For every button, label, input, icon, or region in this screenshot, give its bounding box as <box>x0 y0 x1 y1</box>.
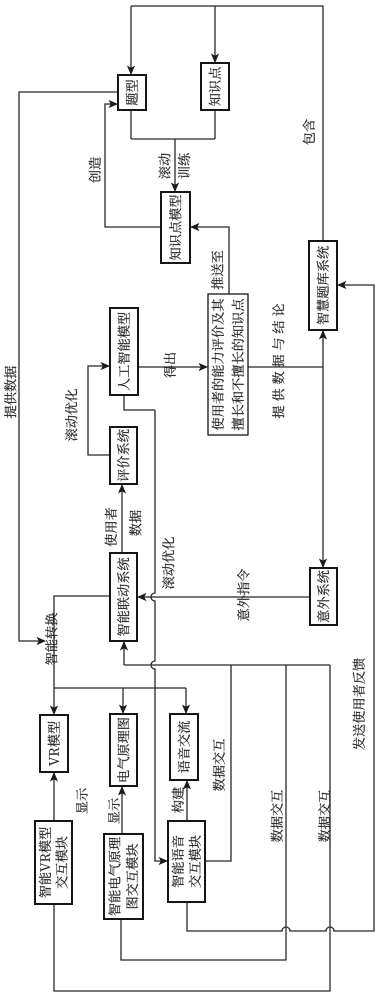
label 数据交互 2 <box>271 790 283 842</box>
box 使用者的能力评价及其擅长和不擅长的知识点 <box>208 294 248 435</box>
box 意外系统 <box>310 568 337 625</box>
box 人工智能模型 <box>110 308 138 395</box>
box 智慧题库系统 <box>309 241 337 330</box>
wire 构建 <box>186 781 188 821</box>
arrow into 知识点 top <box>211 54 219 64</box>
label 使用者数据 line2 <box>129 510 141 535</box>
arrow 显示 into VR模型 bottom <box>50 772 58 782</box>
wire 显示 VR <box>53 773 55 821</box>
wire 提供数据 long left <box>19 92 118 641</box>
arrow into 知识点模型 top <box>171 183 179 193</box>
wire 提供数据与结论 horizontal <box>248 366 323 368</box>
label 数据交互 1 <box>213 739 225 791</box>
label 显示 VR <box>76 788 88 813</box>
wire drop to VR模块 bottom <box>54 665 330 991</box>
arrow 滚动优化 into 人工智能模型 left <box>101 362 111 370</box>
box 语音交流 <box>170 714 198 780</box>
arrow into 意外系统 top <box>319 559 327 569</box>
arrow 构建 into 语音交流 bottom <box>183 780 191 790</box>
wire 显示 电气 <box>121 787 123 834</box>
arrow 推送至 into 知识点模型 right <box>190 223 200 231</box>
wire busA up into 联动系统 <box>123 642 125 665</box>
arrow into 题型 top <box>127 66 135 76</box>
label 创造 <box>89 157 101 183</box>
label 数据交互 3 <box>318 790 330 842</box>
wire bus A <box>124 664 330 666</box>
arrow into VR模型 top <box>50 706 58 716</box>
label 提供数据 <box>4 366 16 418</box>
wire AI模型 bottom jog <box>124 395 155 410</box>
wire down into 意外系统 top <box>322 367 324 569</box>
label 意外指令 <box>237 569 249 621</box>
wire merge <box>131 138 215 140</box>
label 滚动优化 2 <box>162 537 174 589</box>
wire 意外指令 <box>138 596 310 598</box>
label 提供数据与结论 <box>272 304 284 418</box>
wire into 知识点 top <box>214 6 216 63</box>
box 评价系统 <box>110 427 137 484</box>
label 使用者数据 line1 <box>105 508 117 547</box>
arrow 使用者数据 into 评价系统 bottom <box>118 484 126 494</box>
arrow into 电气原理图 top <box>119 705 127 715</box>
label 滚动训练 <box>158 153 190 178</box>
wire 知识点 bottom <box>214 110 216 139</box>
wire bus B <box>54 687 186 689</box>
box 知识点模型 <box>161 192 190 263</box>
wire drop into 语音交流 <box>185 688 187 713</box>
box 电气原理图 <box>110 714 137 786</box>
wire 滚动训练 into 知识点模型 <box>174 139 176 192</box>
wire 智能转换 path <box>54 596 110 688</box>
wire drop to 电气模块 bottom <box>121 665 286 960</box>
arrow 滚动优化 into 语音模块 left <box>159 857 169 865</box>
label 显示 电气 <box>108 798 120 823</box>
arrow 反馈 into 智慧题库系统 right <box>337 281 347 289</box>
wire 推送至 <box>191 227 229 294</box>
label 推送至 <box>211 251 223 290</box>
label 发送使用者反馈 <box>353 658 365 750</box>
arrow into 智慧题库系统 bottom <box>319 330 327 340</box>
wire drop to 语音模块 right <box>205 665 231 861</box>
wire drop into VR模型 <box>53 688 55 714</box>
arrow 显示 into 电气原理图 bottom <box>118 786 126 796</box>
box 知识点 <box>201 63 229 110</box>
box 智能VR模型交互模块 <box>35 821 72 904</box>
arrow 得出 into 使用者box left <box>199 363 209 371</box>
arrow 意外指令 into 联动系统 right <box>137 593 147 601</box>
label 智能转换 <box>45 613 57 665</box>
wire 得出 <box>138 366 207 368</box>
wire up into 智慧题库系统 bottom <box>322 331 324 367</box>
arrow 创造 into 题型 left <box>109 100 119 108</box>
box 智能电气原理图交互模块 <box>104 834 143 919</box>
wire 使用者数据 <box>121 485 123 553</box>
label 得出 <box>164 353 176 378</box>
label 构建 <box>172 787 184 813</box>
wire into 题型 top <box>130 6 132 75</box>
arrow into 语音交流 top <box>182 705 190 715</box>
box 题型 <box>118 75 146 110</box>
wire 创造 loop <box>105 104 161 227</box>
label 包含 <box>303 119 315 144</box>
box 智能语音交互模块 <box>168 821 205 902</box>
wire 发送使用者反馈 <box>187 285 374 931</box>
wire top bus to 包含 drop <box>131 6 323 241</box>
box VR模型 <box>40 715 68 772</box>
label 滚动优化 1 <box>65 389 77 441</box>
wire drop into 电气原理图 <box>122 688 124 713</box>
wire 滚动优化 loop <box>88 366 110 455</box>
wire 题型 bottom <box>130 110 132 139</box>
box 智能联动系统 <box>110 553 137 641</box>
arrow busA into 联动系统 bottom <box>120 641 128 651</box>
wire 滚动优化 vertical with hops <box>151 410 167 861</box>
arrow 提供数据 <box>37 637 47 645</box>
